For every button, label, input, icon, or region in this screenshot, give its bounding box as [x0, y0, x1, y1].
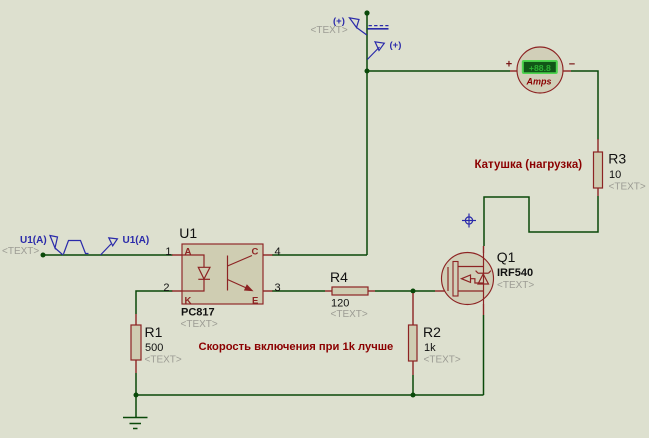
pin lead U1 pin1 [172, 254, 182, 256]
pin lead U1 pin2 [172, 290, 182, 292]
pin lead R3 bottom [597, 188, 599, 196]
svg-text:Q1: Q1 [497, 249, 516, 265]
wire input node to U1 pin1 [43, 254, 173, 256]
wire U1 pin2 to R1 top [136, 291, 173, 314]
svg-text:4: 4 [275, 246, 281, 258]
origin marker [462, 214, 476, 228]
svg-text:<TEXT>: <TEXT> [331, 309, 368, 320]
internal led diode [182, 255, 210, 291]
wire R2 bottom to ground rail [412, 375, 414, 395]
optocoupler U1 [163, 225, 280, 330]
svg-text:(+): (+) [390, 40, 402, 51]
svg-text:<TEXT>: <TEXT> [424, 355, 461, 366]
generator probe (+) top [350, 18, 367, 35]
svg-text:3: 3 [275, 282, 281, 294]
pin lead U1 pin4 [263, 254, 273, 256]
resistor R1 body [131, 325, 141, 360]
junction dot at ammeter branch [365, 69, 370, 74]
wire ammeter minus terminal to R3 top [571, 71, 598, 140]
wire R4 right to Q1 gate [375, 290, 435, 292]
voltage probe arrow (+) [367, 42, 384, 60]
wire U1 pin4 to vertical VCC wire [272, 254, 367, 256]
wire top horizontal to ammeter plus terminal [367, 70, 510, 72]
optocoupler U1 body [182, 244, 263, 304]
pin lead R1 top [135, 314, 137, 325]
svg-text:<TEXT>: <TEXT> [145, 355, 182, 366]
svg-text:<TEXT>: <TEXT> [609, 182, 646, 193]
ammeter [506, 47, 575, 93]
svg-text:1k: 1k [424, 342, 436, 354]
pin lead R4 left [325, 290, 332, 292]
pin lead Q1 source [483, 304, 485, 315]
svg-text:<TEXT>: <TEXT> [497, 280, 534, 291]
svg-text:R3: R3 [608, 151, 626, 167]
svg-text:Скорость включения при 1k лучш: Скорость включения при 1k лучше [199, 341, 394, 353]
lcd display screen [524, 62, 556, 72]
resistor R3 [594, 139, 646, 196]
svg-text:U1: U1 [179, 225, 197, 241]
junction dot ground node [134, 393, 139, 398]
svg-text:−: − [569, 59, 575, 71]
pin lead Q1 drain [483, 246, 485, 253]
junction dot R2 bottom [411, 393, 416, 398]
wire Q1 source down [483, 315, 485, 395]
resistor R3 body [594, 152, 603, 188]
svg-text:+88.8: +88.8 [529, 63, 551, 73]
svg-text:10: 10 [609, 169, 621, 181]
ammeter body circle [517, 47, 563, 93]
transistor Q1 body circle [442, 253, 494, 305]
voltage probe arrow U1(A) [101, 238, 118, 255]
svg-text:<TEXT>: <TEXT> [311, 25, 348, 36]
svg-text:IRF540: IRF540 [497, 267, 533, 279]
svg-text:<TEXT>: <TEXT> [2, 246, 39, 257]
svg-text:R2: R2 [423, 324, 441, 340]
pin lead R3 top [597, 139, 599, 152]
mosfet symbol internals [448, 253, 491, 304]
svg-text:2: 2 [163, 282, 169, 294]
ground [123, 418, 148, 429]
wire R3 bottom staircase to Q1 drain [484, 196, 598, 246]
dc supply symbol [368, 26, 389, 29]
wire net VCC vertical from top terminal to U1 pin4 row [366, 13, 368, 255]
svg-text:Катушка (нагрузка): Катушка (нагрузка) [475, 159, 583, 171]
resistor R1 [131, 314, 182, 373]
resistor R2 body [409, 325, 418, 361]
svg-text:C: C [252, 247, 259, 258]
resistor R4 [325, 269, 375, 320]
pin lead R1 bottom [135, 360, 137, 373]
pin lead R2 bottom [412, 361, 414, 375]
transistor Q1 [435, 246, 534, 315]
resistor R2 [409, 293, 461, 375]
svg-text:A: A [185, 247, 192, 258]
svg-text:PC817: PC817 [181, 307, 215, 319]
svg-text:U1(A): U1(A) [123, 235, 150, 246]
svg-text:E: E [252, 296, 258, 307]
wire ground stub [135, 395, 137, 418]
svg-text:Amps: Amps [525, 77, 551, 87]
internal phototransistor [228, 256, 253, 291]
pin lead plus [510, 70, 518, 72]
wire R1 bottom to ground rail [135, 373, 137, 395]
svg-text:K: K [185, 296, 192, 307]
svg-text:R1: R1 [145, 324, 163, 340]
pin lead R2 top [412, 293, 414, 325]
pin lead minus [562, 70, 571, 72]
resistor R4 body [332, 287, 368, 295]
generator probe U1(A) [50, 236, 63, 256]
svg-text:<TEXT>: <TEXT> [181, 319, 218, 330]
pin lead Q1 gate [435, 290, 448, 292]
junction dot R2 top / gate node [411, 289, 416, 294]
svg-text:1: 1 [165, 246, 171, 258]
svg-text:500: 500 [145, 342, 163, 354]
pin lead U1 pin3 [263, 290, 273, 292]
svg-text:U1(A): U1(A) [20, 235, 47, 246]
wire U1 pin3 to R4 left [272, 290, 325, 292]
junction dot input node [41, 253, 46, 258]
svg-text:120: 120 [331, 298, 349, 310]
svg-text:+: + [506, 59, 512, 71]
waveform pulse icon [64, 241, 89, 255]
lcd display frame [522, 60, 558, 74]
junction dot at top power terminal [364, 10, 369, 15]
pin lead R4 right [368, 290, 375, 292]
svg-text:R4: R4 [330, 269, 348, 285]
wire bottom ground rail [136, 394, 484, 396]
